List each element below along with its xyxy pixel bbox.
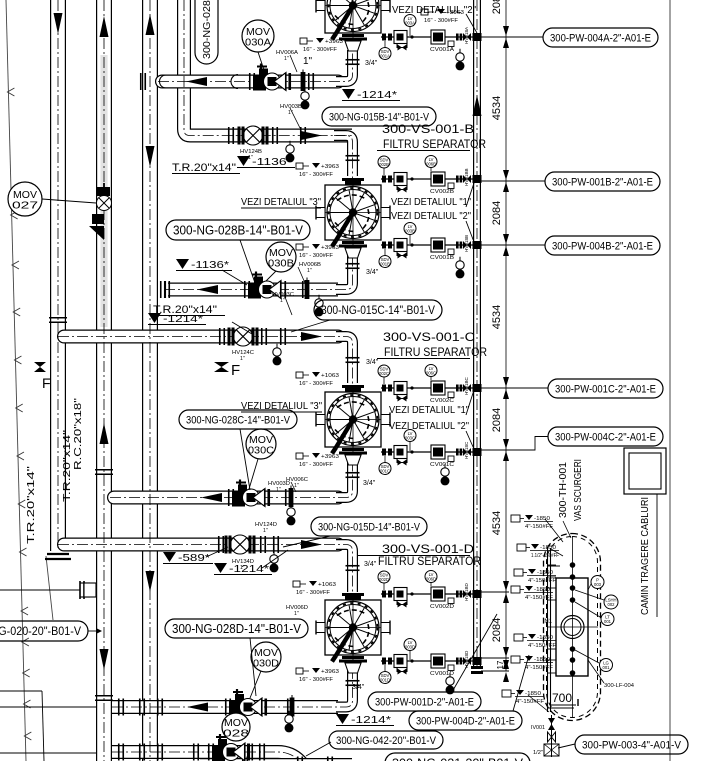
svg-text:006B: 006B <box>426 162 436 167</box>
svg-text:1": 1" <box>307 268 312 274</box>
svg-text:1": 1" <box>240 565 245 571</box>
svg-text:17: 17 <box>496 660 505 669</box>
svg-text:3/4": 3/4" <box>364 561 377 568</box>
svg-text:CV001B: CV001B <box>430 255 455 261</box>
svg-text:300-PW-003-4"-A01-V: 300-PW-003-4"-A01-V <box>582 739 682 751</box>
svg-text:1/2": 1/2" <box>533 750 543 756</box>
svg-text:003D: 003D <box>405 645 415 650</box>
svg-text:CV001D: CV001D <box>430 671 454 677</box>
svg-text:300-NG-015B-14"-B01-V: 300-NG-015B-14"-B01-V <box>329 111 430 123</box>
svg-text:1.1/2"-150#FF: 1.1/2"-150#FF <box>531 553 560 559</box>
svg-text:300-NG-015D-14"-B01-V: 300-NG-015D-14"-B01-V <box>318 521 421 533</box>
svg-text:MOV: MOV <box>254 648 278 659</box>
svg-text:16" - 300#FF: 16" - 300#FF <box>299 172 334 178</box>
svg-text:1": 1" <box>294 611 299 617</box>
svg-text:HV01BC: HV01BC <box>464 376 469 395</box>
svg-text:001B: 001B <box>380 262 390 267</box>
svg-text:VEZI DETALIUL "2": VEZI DETALIUL "2" <box>391 210 471 222</box>
svg-text:002B: 002B <box>379 162 389 167</box>
svg-text:1": 1" <box>240 356 245 362</box>
svg-text:-1214*: -1214* <box>351 714 391 726</box>
svg-text:MOV: MOV <box>13 190 37 201</box>
svg-text:300-VS-001-B: 300-VS-001-B <box>382 124 474 136</box>
svg-text:FILTRU SEPARATOR: FILTRU SEPARATOR <box>383 139 486 151</box>
svg-text:300-NG-028D-14"-B01-V: 300-NG-028D-14"-B01-V <box>172 622 302 636</box>
svg-text:4"-150#FF: 4"-150#FF <box>525 595 554 601</box>
svg-text:2084: 2084 <box>491 0 503 14</box>
svg-text:030B: 030B <box>268 259 294 270</box>
svg-text:300-PW-004C-2"-A01-E: 300-PW-004C-2"-A01-E <box>555 431 656 443</box>
svg-text:300-TH-001: 300-TH-001 <box>558 462 569 518</box>
svg-text:VEZI DETALIUL "1": VEZI DETALIUL "1" <box>391 196 471 208</box>
svg-text:16" - 300#FF: 16" - 300#FF <box>296 590 331 596</box>
svg-text:R.C.20"x18": R.C.20"x18" <box>73 397 84 470</box>
svg-text:001D: 001D <box>380 678 390 683</box>
svg-text:4"-150#FF: 4"-150#FF <box>525 665 554 671</box>
svg-text:300-PW-004D-2"-A01-E: 300-PW-004D-2"-A01-E <box>416 715 515 727</box>
svg-text:300-NG-028B-14"-B01-V: 300-NG-028B-14"-B01-V <box>173 223 304 237</box>
svg-text:HV01BD: HV01BD <box>464 582 469 601</box>
svg-text:+3963: +3963 <box>321 669 339 675</box>
svg-text:CV002D: CV002D <box>430 604 454 610</box>
svg-text:1": 1" <box>303 56 313 67</box>
svg-text:CV001C: CV001C <box>430 462 454 468</box>
svg-text:3/4": 3/4" <box>365 60 378 67</box>
svg-text:HV018A: HV018A <box>464 26 469 44</box>
svg-text:T.R.20"x14": T.R.20"x14" <box>172 162 236 174</box>
svg-text:2084: 2084 <box>491 618 503 642</box>
svg-text:4534: 4534 <box>491 511 503 535</box>
svg-text:030C: 030C <box>248 446 274 457</box>
svg-text:CAMIN TRAGERE CABLURI: CAMIN TRAGERE CABLURI <box>640 497 651 615</box>
svg-text:16" - 300#FF: 16" - 300#FF <box>299 381 334 387</box>
svg-text:003B: 003B <box>405 229 415 234</box>
svg-text:CV002B: CV002B <box>430 189 455 195</box>
svg-text:T.R.20"x14": T.R.20"x14" <box>153 304 217 316</box>
svg-text:4"-150#FF: 4"-150#FF <box>516 699 545 705</box>
svg-text:300-VS-001-C: 300-VS-001-C <box>383 332 475 344</box>
svg-text:030D: 030D <box>253 659 279 670</box>
svg-text:T.R.20"x14": T.R.20"x14" <box>26 465 37 544</box>
svg-text:-1214*: -1214* <box>357 89 397 101</box>
svg-text:300-NG-028C-14"-B01-V: 300-NG-028C-14"-B01-V <box>186 414 291 426</box>
svg-text:F: F <box>231 362 240 379</box>
svg-text:-1136*: -1136* <box>252 156 292 168</box>
svg-text:FILTRU SEPARATOR: FILTRU SEPARATOR <box>378 556 481 568</box>
svg-text:3/4": 3/4" <box>366 359 379 366</box>
svg-text:1": 1" <box>276 487 281 493</box>
svg-text:F: F <box>42 375 51 391</box>
svg-text:T.R.20"x14": T.R.20"x14" <box>62 429 73 502</box>
svg-text:001: 001 <box>603 665 611 670</box>
svg-text:4"-150#FF: 4"-150#FF <box>528 643 557 649</box>
svg-text:16" - 300#FF: 16" - 300#FF <box>299 677 334 683</box>
svg-text:16" - 300#FF: 16" - 300#FF <box>299 253 334 259</box>
svg-text:+3963: +3963 <box>321 245 339 251</box>
svg-text:1": 1" <box>284 56 289 62</box>
svg-text:1": 1" <box>248 155 253 161</box>
svg-text:3/4": 3/4" <box>352 684 365 691</box>
svg-text:300-NG-042-20"-B01-V: 300-NG-042-20"-B01-V <box>336 735 437 747</box>
svg-text:VEZI DETALIUL "3": VEZI DETALIUL "3" <box>241 196 321 208</box>
svg-text:028: 028 <box>223 729 250 740</box>
svg-text:003A: 003A <box>405 21 415 26</box>
svg-text:VEZI DETALIUL "1": VEZI DETALIUL "1" <box>389 404 469 416</box>
svg-text:VEZI DETALIUL "3": VEZI DETALIUL "3" <box>241 400 322 412</box>
svg-text:HV01BB: HV01BB <box>464 168 469 186</box>
svg-text:CV001A: CV001A <box>430 47 455 53</box>
svg-text:300-PW-001C-2"-A01-E: 300-PW-001C-2"-A01-E <box>555 383 656 395</box>
svg-text:300-VS-001-D: 300-VS-001-D <box>382 544 474 556</box>
svg-text:300-NG-028A: 300-NG-028A <box>202 0 213 59</box>
svg-text:MOV: MOV <box>246 27 270 38</box>
svg-text:001: 001 <box>604 619 612 624</box>
svg-text:003: 003 <box>594 582 602 587</box>
svg-text:002D: 002D <box>379 577 389 582</box>
svg-text:006D: 006D <box>426 577 436 582</box>
svg-text:300-PW-001B-2"-A01-E: 300-PW-001B-2"-A01-E <box>552 176 653 188</box>
svg-text:MOV: MOV <box>249 435 273 446</box>
svg-text:300-PW-001D-2"-A01-E: 300-PW-001D-2"-A01-E <box>375 696 474 708</box>
svg-text:4534: 4534 <box>491 96 503 120</box>
svg-text:N1: N1 <box>544 619 552 625</box>
svg-text:16" - 300#FF: 16" - 300#FF <box>424 18 459 24</box>
svg-text:001C: 001C <box>380 469 390 474</box>
svg-text:300-PW-004B-2"-A01-E: 300-PW-004B-2"-A01-E <box>552 240 653 252</box>
svg-text:-589*: -589* <box>178 552 210 564</box>
svg-text:VAS SCURGERI: VAS SCURGERI <box>573 459 584 521</box>
svg-text:030A: 030A <box>245 38 271 49</box>
svg-text:MOV: MOV <box>269 248 293 259</box>
svg-text:3/4": 3/4" <box>363 480 376 487</box>
svg-text:MOV: MOV <box>224 718 248 729</box>
svg-text:2084: 2084 <box>491 201 503 225</box>
svg-text:4"-150#FF: 4"-150#FF <box>528 578 557 584</box>
svg-text:300-NG-021-20"-B01-V: 300-NG-021-20"-B01-V <box>392 756 523 761</box>
svg-text:300-NG-015C-14"-B01-V: 300-NG-015C-14"-B01-V <box>321 305 435 317</box>
svg-text:002: 002 <box>608 602 616 607</box>
svg-text:002C: 002C <box>379 371 389 376</box>
svg-text:VEZI DETALIUL "2": VEZI DETALIUL "2" <box>389 420 469 432</box>
svg-text:300-PW-004A-2"-A01-E: 300-PW-004A-2"-A01-E <box>550 32 651 44</box>
svg-text:2084: 2084 <box>491 408 503 432</box>
svg-text:+3963: +3963 <box>325 39 343 45</box>
svg-text:IV001: IV001 <box>531 725 545 731</box>
svg-text:HV018D: HV018D <box>464 650 469 668</box>
svg-text:700: 700 <box>552 691 572 705</box>
svg-text:-1136*: -1136* <box>191 259 229 271</box>
svg-text:HV018B: HV018B <box>464 235 469 252</box>
svg-text:300-LF-004: 300-LF-004 <box>604 683 634 689</box>
svg-text:16" - 300#FF: 16" - 300#FF <box>303 47 338 53</box>
svg-text:006C: 006C <box>426 371 436 376</box>
svg-text:16" - 300#FF: 16" - 300#FF <box>299 462 334 468</box>
svg-text:+3963: +3963 <box>321 454 339 460</box>
svg-text:300-NG-020-20"-B01-V: 300-NG-020-20"-B01-V <box>0 626 81 638</box>
svg-text:1": 1" <box>280 298 285 304</box>
svg-text:003C: 003C <box>405 436 415 441</box>
svg-text:+3963: +3963 <box>446 10 464 16</box>
svg-text:3/4": 3/4" <box>366 269 379 276</box>
svg-text:+3963: +3963 <box>321 164 339 170</box>
svg-text:+1063: +1063 <box>318 582 336 588</box>
svg-text:1": 1" <box>263 528 268 534</box>
svg-text:027: 027 <box>12 201 39 212</box>
svg-text:1": 1" <box>294 483 299 489</box>
svg-text:001A: 001A <box>380 54 390 59</box>
svg-text:+1063: +1063 <box>321 373 339 379</box>
svg-text:4534: 4534 <box>491 305 503 329</box>
svg-text:HV018C: HV018C <box>464 441 469 459</box>
svg-text:FILTRU SEPARATOR: FILTRU SEPARATOR <box>384 347 487 359</box>
